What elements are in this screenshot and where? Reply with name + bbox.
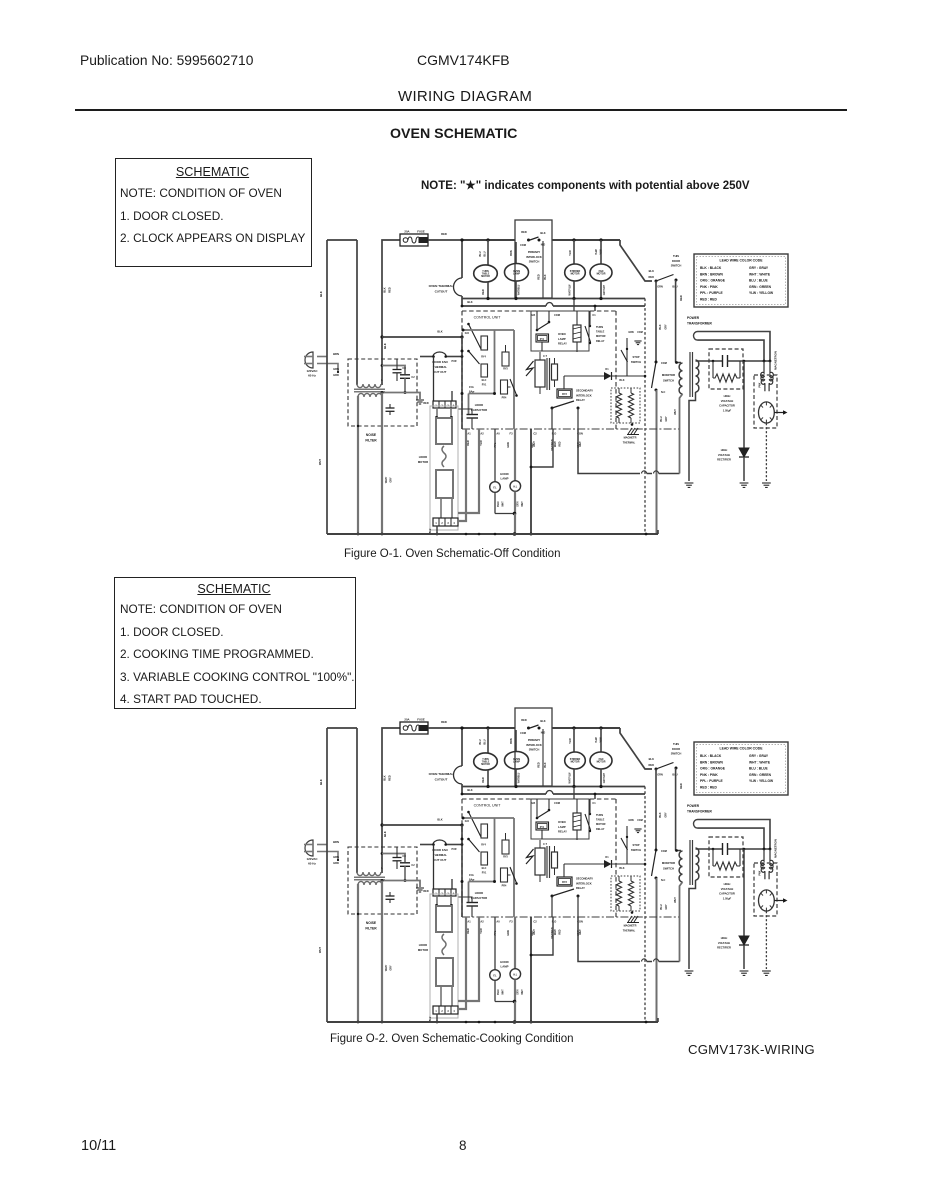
footer page number (459, 1138, 467, 1153)
note about 250V components (421, 178, 750, 192)
header model number (417, 52, 510, 68)
section title OVEN SCHEMATIC (390, 126, 517, 142)
header horizontal rule (75, 109, 847, 111)
schematic note box 2 (114, 577, 356, 709)
header page title WIRING DIAGRAM (398, 88, 532, 105)
oven schematic figure O-1 (off condition) (304, 220, 788, 536)
figure caption O-1 (344, 548, 560, 560)
figure caption O-2 (330, 1033, 574, 1045)
footer date (81, 1138, 116, 1154)
schematic note box 1 (115, 158, 312, 267)
wiring code label (688, 1042, 815, 1057)
header publication number (80, 53, 253, 68)
oven schematic figure O-2 (cooking condition), same circuit shifted down (304, 708, 788, 1024)
